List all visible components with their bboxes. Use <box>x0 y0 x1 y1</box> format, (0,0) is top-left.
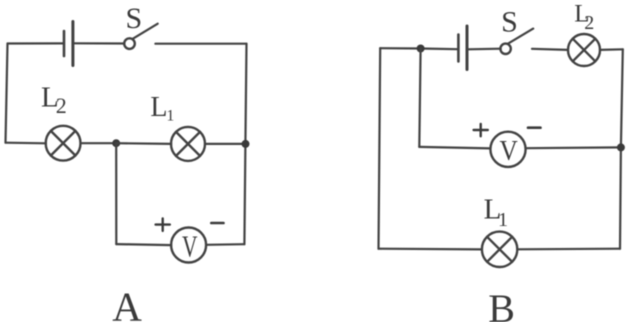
voltmeter V, circuit A <box>171 228 206 264</box>
svg-text:V: V <box>500 136 519 167</box>
wire: circuit B top, left corner to battery <box>380 48 457 49</box>
wire: inner branch horizontal to voltmeter, circuit B <box>419 147 490 149</box>
wire: circuit B bottom, left corner to lamp L1 <box>379 248 483 251</box>
wire: battery to switch, circuit B <box>468 48 501 51</box>
label + (voltmeter polarity), circuit B <box>474 124 488 136</box>
svg-text:B: B <box>488 286 515 322</box>
svg-text:1: 1 <box>498 209 508 231</box>
wire: voltmeter to right vertical, circuit A <box>206 243 244 246</box>
switch S, circuit B <box>500 29 533 54</box>
wire: switch to top-right corner, circuit A <box>155 43 246 45</box>
wire: lamp L2 to junction, circuit A <box>81 142 117 144</box>
label − (voltmeter polarity), circuit B <box>528 126 541 129</box>
lamp L2, circuit A <box>46 126 81 161</box>
battery (cell), circuit B <box>458 26 467 70</box>
wire: circuit B right vertical <box>620 49 623 248</box>
wire: inner branch vertical, circuit B <box>419 49 420 147</box>
svg-text:S: S <box>501 6 518 39</box>
svg-text:V: V <box>182 228 198 263</box>
wire: lamp L2 to top-right corner, circuit B <box>600 48 623 51</box>
node: junction of inner branch, circuit B <box>417 45 425 53</box>
wire: circuit B left outer vertical <box>379 48 381 249</box>
svg-text:L: L <box>150 92 167 123</box>
wire: voltmeter branch bottom, to voltmeter, circuit A <box>116 244 171 245</box>
svg-text:S: S <box>126 2 143 35</box>
wire: circuit A right vertical <box>244 44 246 245</box>
label + (voltmeter polarity), circuit A <box>156 219 170 231</box>
wire: lamp L1 to bottom-right corner, circuit B <box>517 248 620 251</box>
node: junction of voltmeter branch (right), circuit A <box>242 140 250 148</box>
node: junction on right vertical, circuit B <box>617 143 625 151</box>
node: junction of voltmeter branch (left), circuit A <box>112 139 120 147</box>
voltmeter V, circuit B <box>490 132 525 167</box>
wire: voltmeter branch left vertical, circuit A <box>115 143 117 244</box>
lamp L1, circuit B <box>482 232 517 267</box>
lamp L1, circuit A <box>171 127 205 161</box>
label − (voltmeter polarity), circuit A <box>211 222 223 225</box>
switch S, circuit A <box>124 24 158 49</box>
svg-text:2: 2 <box>56 93 67 118</box>
wire: battery to switch, circuit A <box>74 42 124 44</box>
svg-text:1: 1 <box>166 108 174 125</box>
wire: voltmeter to right junction, circuit B <box>526 146 621 149</box>
svg-text:2: 2 <box>584 12 594 34</box>
wire: switch to lamp L2, circuit B <box>532 49 568 50</box>
wire: junction to lamp L1, circuit A <box>116 142 171 145</box>
lamp L2, circuit B <box>568 34 600 66</box>
wire: circuit A top, left corner to battery <box>8 42 64 44</box>
wire: circuit A left vertical <box>6 44 8 143</box>
wire: circuit A middle row, left corner to lamp L2 <box>6 142 47 145</box>
wire: lamp L1 to right junction, circuit A <box>205 143 246 145</box>
battery (cell), circuit A <box>64 22 73 66</box>
svg-text:A: A <box>112 284 142 322</box>
